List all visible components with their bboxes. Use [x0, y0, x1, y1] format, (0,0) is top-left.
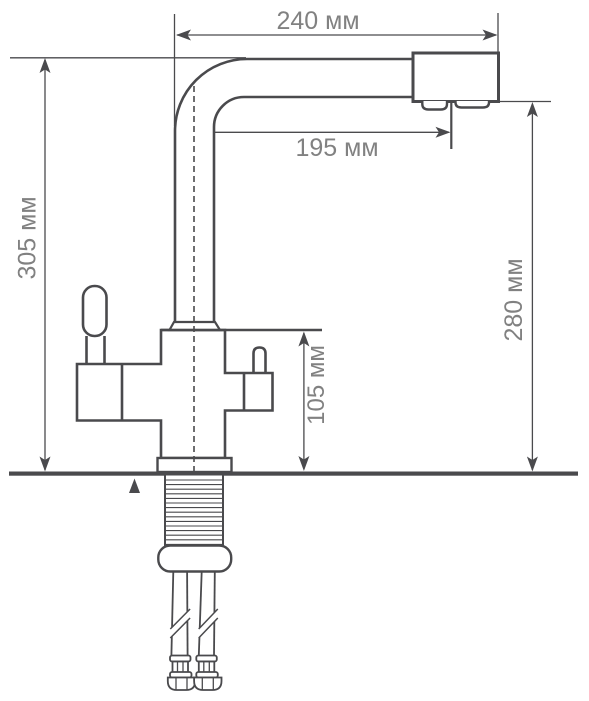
svg-text:105 мм: 105 мм [303, 345, 330, 425]
svg-text:280 мм: 280 мм [500, 258, 528, 341]
svg-text:195 мм: 195 мм [295, 134, 378, 162]
svg-text:240 мм: 240 мм [276, 7, 359, 35]
svg-text:305 мм: 305 мм [14, 196, 42, 279]
